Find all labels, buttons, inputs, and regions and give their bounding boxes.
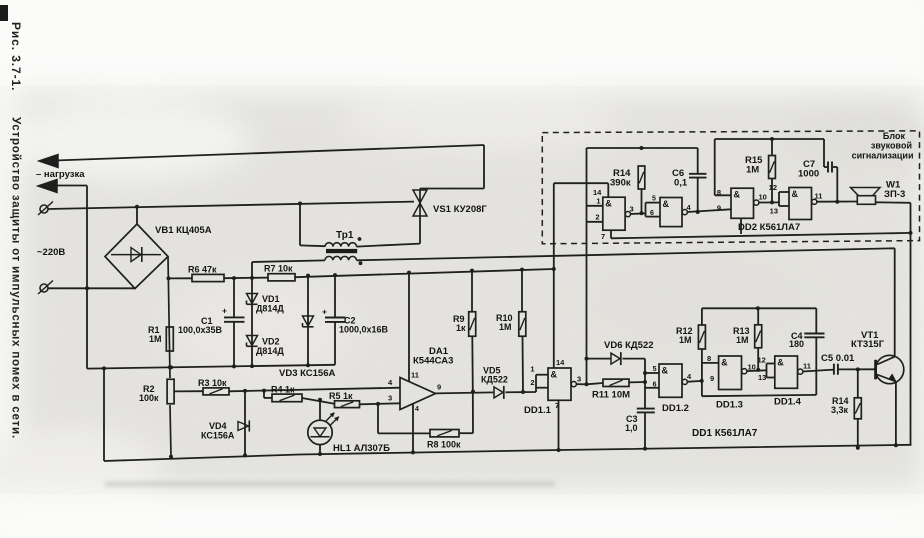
svg-text:7: 7 — [555, 401, 559, 410]
svg-text:VD6 КД522: VD6 КД522 — [604, 340, 654, 351]
svg-text:VD4: VD4 — [209, 421, 227, 431]
svg-text:+: + — [222, 306, 227, 316]
svg-text:R6 47к: R6 47к — [188, 265, 217, 275]
svg-text:3: 3 — [630, 205, 634, 214]
svg-text:2: 2 — [530, 378, 534, 387]
svg-text:6: 6 — [650, 210, 654, 217]
svg-text:9: 9 — [437, 383, 441, 392]
svg-text:Д814Д: Д814Д — [256, 346, 284, 356]
svg-text:– нагрузка: – нагрузка — [36, 169, 85, 180]
svg-text:1М: 1М — [736, 335, 749, 345]
svg-text:&: & — [777, 358, 784, 368]
svg-text:КД522: КД522 — [481, 375, 508, 385]
svg-text:6: 6 — [653, 382, 657, 389]
svg-text:1М: 1М — [499, 322, 512, 332]
svg-text:390к: 390к — [610, 178, 631, 189]
svg-text:13: 13 — [770, 207, 778, 216]
svg-text:R8 100к: R8 100к — [427, 440, 461, 450]
svg-text:9: 9 — [710, 374, 714, 383]
svg-text:&: & — [662, 366, 669, 376]
svg-text:12: 12 — [758, 356, 766, 365]
svg-text:VB1 КЦ405А: VB1 КЦ405А — [155, 225, 212, 236]
svg-text:14: 14 — [556, 358, 565, 367]
svg-text:DD2 К561ЛА7: DD2 К561ЛА7 — [738, 222, 800, 233]
svg-text:4: 4 — [415, 406, 419, 413]
svg-text:1М: 1М — [149, 334, 162, 344]
svg-text:VD2: VD2 — [262, 337, 280, 347]
svg-text:+: + — [322, 307, 327, 317]
svg-text:&: & — [605, 199, 612, 209]
svg-text:HL1 АЛ307Б: HL1 АЛ307Б — [333, 443, 390, 454]
svg-text:сигнализации: сигнализации — [852, 151, 914, 161]
svg-text:10: 10 — [759, 193, 767, 202]
svg-text:11: 11 — [815, 192, 823, 201]
svg-text:8: 8 — [717, 188, 721, 197]
svg-text:С5 0.01: С5 0.01 — [821, 353, 855, 364]
svg-text:КС156А: КС156А — [201, 431, 235, 441]
svg-text:3: 3 — [577, 375, 581, 384]
svg-text:1М: 1М — [679, 335, 692, 345]
svg-text:1000: 1000 — [798, 169, 819, 180]
svg-text:8: 8 — [707, 354, 711, 363]
svg-text:VD3 КС156А: VD3 КС156А — [279, 368, 336, 379]
svg-text:3: 3 — [388, 394, 392, 403]
svg-text:11: 11 — [803, 362, 811, 371]
svg-text:1000,0х16В: 1000,0х16В — [339, 325, 389, 335]
svg-text:9: 9 — [717, 204, 721, 213]
svg-text:Блок: Блок — [883, 131, 906, 141]
svg-text:1: 1 — [596, 197, 600, 206]
svg-text:DD1.3: DD1.3 — [716, 400, 743, 411]
svg-text:7: 7 — [601, 232, 605, 241]
svg-text:5: 5 — [653, 366, 657, 373]
svg-text:Устройство защиты от импульсны: Устройство защиты от импульсных помех в … — [10, 117, 23, 439]
svg-text:VS1 КУ208Г: VS1 КУ208Г — [433, 204, 487, 215]
svg-text:Д814Д: Д814Д — [256, 304, 284, 314]
svg-text:КТ315Г: КТ315Г — [851, 339, 885, 350]
svg-text:R5 1к: R5 1к — [329, 391, 353, 401]
svg-text:1М: 1М — [746, 165, 759, 176]
svg-text:13: 13 — [758, 373, 766, 382]
svg-text:100к: 100к — [139, 393, 159, 403]
svg-text:11: 11 — [411, 371, 419, 380]
svg-text:~220В: ~220В — [37, 247, 65, 258]
svg-text:VD1: VD1 — [262, 294, 280, 304]
svg-text:DD1.4: DD1.4 — [774, 397, 802, 408]
svg-text:DD1.1: DD1.1 — [524, 405, 552, 416]
svg-text:1: 1 — [530, 365, 534, 374]
svg-text:&: & — [721, 358, 728, 368]
svg-text:DD1.2: DD1.2 — [662, 403, 689, 414]
svg-text:1к: 1к — [456, 323, 466, 333]
svg-text:5: 5 — [652, 196, 656, 203]
svg-text:DD1 К561ЛА7: DD1 К561ЛА7 — [692, 428, 758, 439]
svg-text:R11 10М: R11 10М — [592, 390, 630, 401]
svg-text:&: & — [551, 370, 558, 380]
svg-text:2: 2 — [595, 213, 599, 222]
svg-text:R7 10к: R7 10к — [264, 264, 293, 274]
svg-text:R4 1к: R4 1к — [271, 385, 295, 395]
svg-text:180: 180 — [789, 339, 804, 349]
svg-text:100,0х35В: 100,0х35В — [178, 325, 223, 335]
svg-text:&: & — [734, 190, 741, 200]
svg-text:1,0: 1,0 — [625, 423, 638, 433]
svg-text:Тр1: Тр1 — [336, 230, 354, 241]
svg-text:R3 10к: R3 10к — [198, 378, 227, 388]
svg-text:0,1: 0,1 — [674, 178, 688, 189]
svg-text:3,3к: 3,3к — [831, 405, 849, 415]
svg-text:К544СА3: К544СА3 — [413, 356, 453, 367]
svg-text:12: 12 — [769, 183, 777, 192]
svg-text:&: & — [663, 199, 670, 209]
svg-text:&: & — [792, 189, 799, 199]
svg-text:звуковой: звуковой — [871, 141, 912, 151]
svg-text:ЗП-3: ЗП-3 — [884, 189, 905, 200]
svg-text:Рис. 3.7-1.: Рис. 3.7-1. — [9, 22, 23, 91]
